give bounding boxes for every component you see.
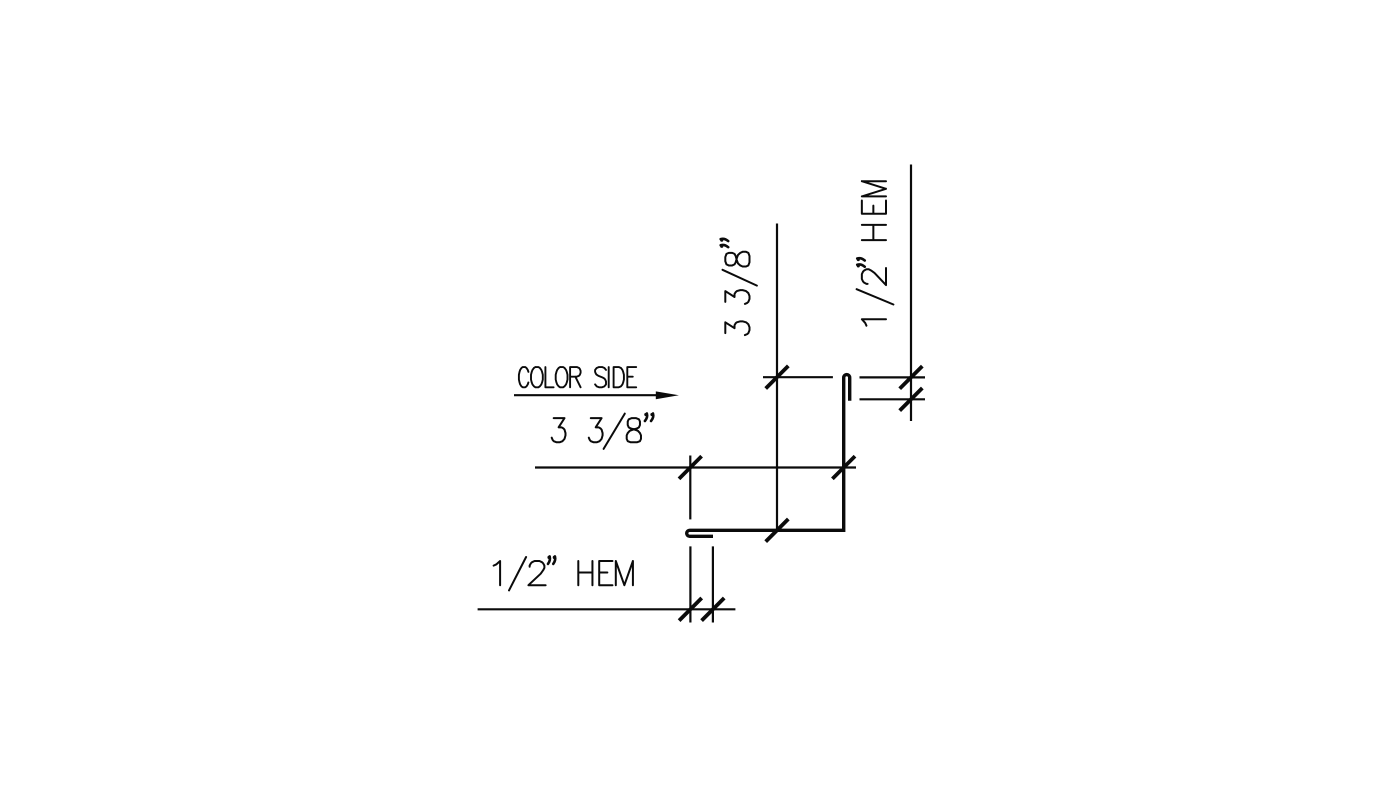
dim line: bottom 1/2&quot; HEM dimension	[478, 608, 736, 610]
leader arrow pointing at color side	[514, 394, 660, 396]
leader at hem top	[860, 376, 926, 378]
extension line from hem end	[712, 546, 714, 622]
tick at x=690	[679, 456, 702, 479]
extension line at top of vertical leg	[763, 376, 833, 378]
extension line left of bottom leg	[689, 456, 691, 520]
tick at x=713	[702, 598, 725, 621]
text: 1/2&quot; HEM (vertical, rotated)	[857, 181, 894, 326]
tick at hem bottom	[900, 388, 923, 411]
tick at top	[766, 366, 789, 389]
dim line: horizontal 3 3/8&quot; dimension	[535, 466, 856, 468]
text: 1/2&quot; HEM (horizontal)	[494, 556, 633, 591]
profile: hemmed metal flashing cross-section	[687, 375, 850, 537]
text: COLOR SIDE	[519, 367, 636, 387]
tick at hem top	[900, 366, 923, 389]
dim line: right vertical 1/2&quot; HEM dimension	[910, 165, 912, 422]
leader at hem bottom	[860, 398, 926, 400]
tick at x=690	[679, 598, 702, 621]
tick at bottom	[766, 519, 789, 542]
text: 3 3/8&quot; (vertical, rotated)	[720, 239, 757, 335]
extension line from hem fold	[689, 546, 691, 622]
text: 3 3/8&quot; (horizontal)	[552, 413, 654, 449]
dim line: vertical 3 3/8&quot; dimension	[776, 224, 778, 531]
tick at x=844	[832, 456, 855, 479]
